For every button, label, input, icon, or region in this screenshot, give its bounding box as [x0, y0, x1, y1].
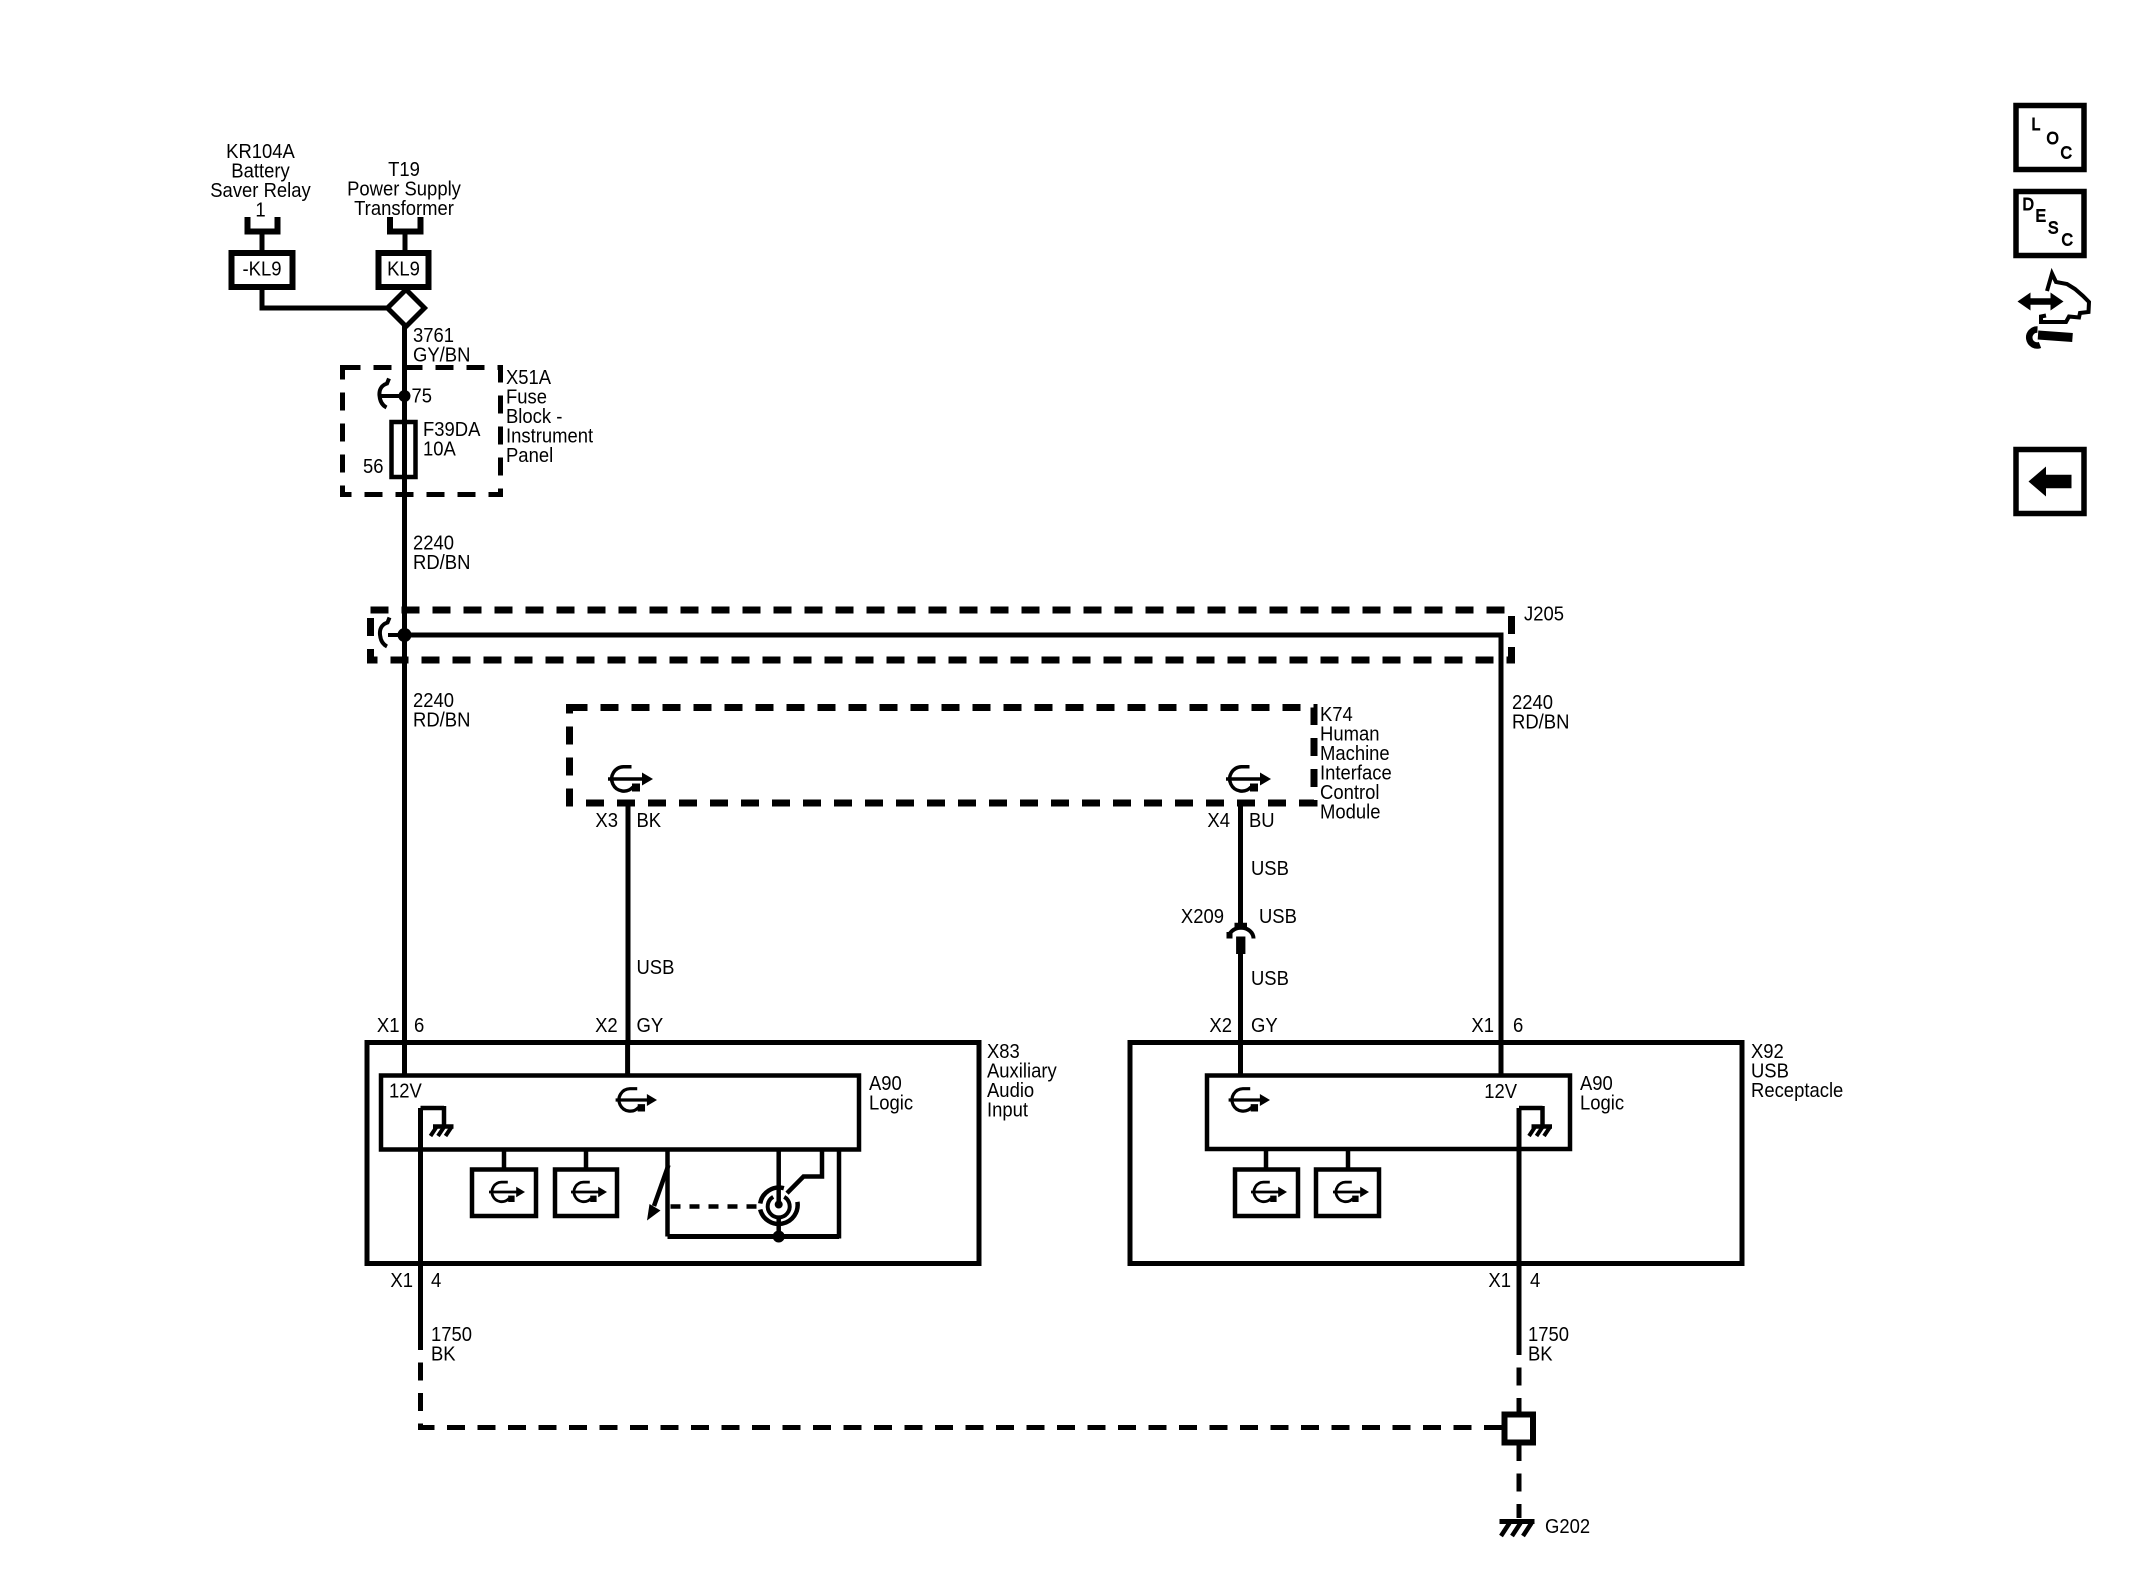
svg-text:BK: BK: [637, 809, 662, 832]
svg-text:D: D: [2023, 194, 2034, 214]
svg-text:10A: 10A: [423, 438, 456, 461]
svg-text:USB: USB: [1251, 967, 1289, 990]
svg-text:L: L: [2032, 114, 2041, 134]
svg-text:Receptacle: Receptacle: [1751, 1079, 1843, 1102]
svg-text:12V: 12V: [389, 1080, 422, 1103]
svg-text:Module: Module: [1320, 801, 1381, 824]
svg-text:Logic: Logic: [1580, 1092, 1624, 1115]
svg-text:6: 6: [414, 1014, 424, 1037]
svg-text:Input: Input: [987, 1099, 1028, 1122]
svg-text:USB: USB: [637, 956, 675, 979]
svg-text:USB: USB: [1259, 905, 1297, 928]
svg-text:4: 4: [1530, 1269, 1540, 1292]
svg-text:6: 6: [1513, 1014, 1523, 1037]
svg-text:C: C: [2062, 230, 2073, 250]
svg-text:-KL9: -KL9: [243, 258, 282, 281]
svg-text:BK: BK: [1528, 1343, 1553, 1366]
svg-text:12V: 12V: [1484, 1080, 1517, 1103]
svg-text:GY: GY: [637, 1014, 664, 1037]
svg-text:X3: X3: [595, 809, 618, 832]
svg-text:X4: X4: [1207, 809, 1230, 832]
svg-text:1: 1: [255, 198, 265, 221]
svg-text:X1: X1: [1471, 1014, 1494, 1037]
svg-text:4: 4: [431, 1269, 441, 1292]
svg-text:BK: BK: [431, 1343, 456, 1366]
svg-text:Panel: Panel: [506, 444, 553, 467]
svg-text:X209: X209: [1181, 905, 1224, 928]
svg-text:GY/BN: GY/BN: [413, 344, 470, 367]
svg-text:KL9: KL9: [387, 258, 420, 281]
svg-text:Transformer: Transformer: [354, 197, 454, 220]
svg-text:Logic: Logic: [869, 1092, 913, 1115]
svg-text:J205: J205: [1524, 603, 1564, 626]
svg-text:RD/BN: RD/BN: [413, 709, 470, 732]
svg-text:USB: USB: [1251, 857, 1289, 880]
svg-text:RD/BN: RD/BN: [1512, 711, 1569, 734]
svg-text:E: E: [2036, 206, 2047, 226]
svg-text:X2: X2: [595, 1014, 618, 1037]
svg-text:C: C: [2061, 143, 2072, 163]
svg-text:X2: X2: [1209, 1014, 1232, 1037]
svg-text:X1: X1: [377, 1014, 400, 1037]
svg-text:G202: G202: [1545, 1515, 1590, 1538]
svg-text:RD/BN: RD/BN: [413, 551, 470, 574]
svg-text:O: O: [2047, 128, 2059, 148]
svg-text:BU: BU: [1249, 809, 1275, 832]
svg-text:X1: X1: [390, 1269, 413, 1292]
svg-text:X1: X1: [1488, 1269, 1511, 1292]
svg-text:GY: GY: [1251, 1014, 1278, 1037]
svg-text:56: 56: [363, 455, 384, 478]
svg-text:S: S: [2048, 218, 2059, 238]
svg-text:75: 75: [412, 385, 433, 408]
